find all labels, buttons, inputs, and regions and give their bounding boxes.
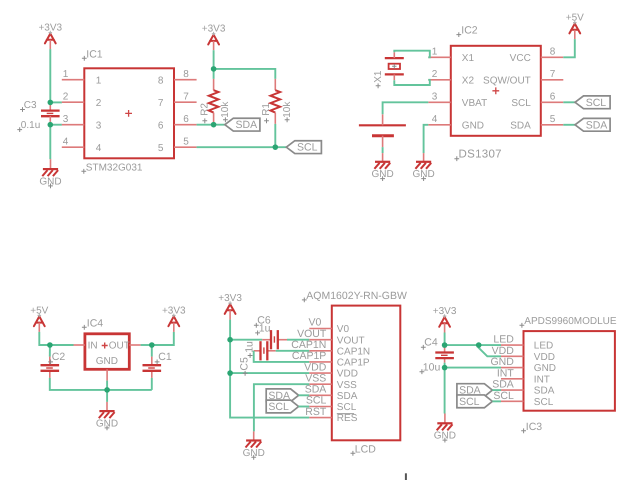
svg-text:1: 1 bbox=[96, 75, 102, 86]
svg-text:STM32G031: STM32G031 bbox=[86, 163, 143, 174]
wire SDA to tag bbox=[563, 124, 575, 126]
svg-text:SDA: SDA bbox=[492, 379, 514, 391]
junction bbox=[476, 342, 482, 348]
svg-text:GND: GND bbox=[534, 363, 556, 374]
svg-text:3: 3 bbox=[96, 120, 102, 131]
supply +3V3 (pull-ups) bbox=[202, 24, 226, 51]
svg-text:C3: C3 bbox=[24, 100, 37, 111]
svg-text:IC4: IC4 bbox=[87, 317, 104, 329]
wire rail segment bbox=[229, 340, 231, 373]
wire VDD bbox=[230, 372, 309, 374]
junction bbox=[442, 342, 448, 348]
wire to IC1 pin 3 bbox=[50, 124, 62, 126]
wire +5V to VCC bbox=[563, 39, 575, 57]
supply +5V (IC2) bbox=[566, 13, 584, 40]
net label SCL (IC1) bbox=[286, 141, 321, 154]
label C2 bbox=[48, 351, 65, 364]
wire +5V to IN net bbox=[39, 332, 50, 345]
label STM32G031 bbox=[81, 163, 143, 174]
svg-text:APDS9960MODLUE: APDS9960MODLUE bbox=[524, 316, 617, 327]
capacitor C3 plates bbox=[41, 111, 60, 117]
net label SDA (IC2) bbox=[575, 118, 610, 131]
wire VSS to ground bbox=[254, 384, 309, 431]
supply +5V (regulator) bbox=[30, 305, 48, 332]
svg-text:SCL: SCL bbox=[511, 98, 531, 109]
supply +3V3 (regulator out) bbox=[162, 305, 186, 332]
junction bbox=[211, 122, 217, 128]
wire to IN pin bbox=[50, 344, 74, 346]
capacitor C4 10u bbox=[444, 345, 446, 363]
svg-text:DS1307: DS1307 bbox=[459, 149, 502, 161]
junction bbox=[48, 122, 54, 128]
capacitor C6 1u bbox=[262, 339, 287, 341]
svg-text:INT: INT bbox=[534, 374, 550, 385]
junction bbox=[273, 144, 279, 150]
label C1 bbox=[155, 351, 172, 364]
wire SDA tag to pin bbox=[492, 389, 501, 391]
wire to VDD pin bbox=[479, 345, 501, 356]
crystal X1 bbox=[373, 52, 404, 88]
svg-text:R2: R2 bbox=[199, 103, 210, 116]
resistor R2 10k bbox=[199, 79, 231, 124]
label C4 bbox=[421, 337, 438, 350]
wire to ground bbox=[444, 368, 446, 414]
wire pin6 SDA net bbox=[197, 124, 225, 126]
wire R1 bottom to SCL bbox=[274, 124, 276, 147]
sensor module IC3 APDS9960MODLUE bbox=[490, 331, 614, 411]
wire rail to ground bbox=[106, 390, 108, 402]
wire IC2 GND pin to ground bbox=[424, 125, 429, 153]
svg-text:6: 6 bbox=[158, 120, 164, 131]
svg-text:X2: X2 bbox=[462, 75, 475, 86]
svg-text:SCL: SCL bbox=[459, 396, 480, 408]
svg-text:SCL: SCL bbox=[337, 402, 357, 413]
wire X1 to pin2 bbox=[394, 80, 430, 85]
wire to R1 top bbox=[214, 69, 276, 79]
net label SDA (IC1) bbox=[225, 118, 260, 131]
svg-text:VDD: VDD bbox=[337, 369, 358, 380]
svg-text:7: 7 bbox=[183, 92, 189, 103]
svg-text:IC3: IC3 bbox=[526, 421, 543, 433]
svg-text:5: 5 bbox=[183, 137, 189, 148]
junction bbox=[149, 342, 155, 348]
label IC3 bbox=[521, 421, 542, 433]
svg-text:SDA: SDA bbox=[586, 119, 608, 131]
svg-text:OUT: OUT bbox=[109, 341, 130, 352]
svg-text:1: 1 bbox=[432, 47, 438, 58]
svg-text:1: 1 bbox=[63, 69, 69, 80]
svg-text:SDA: SDA bbox=[305, 384, 327, 396]
capacitor C3 0.1u bbox=[49, 102, 51, 110]
svg-text:VDD: VDD bbox=[492, 345, 515, 357]
svg-text:10u: 10u bbox=[423, 361, 441, 373]
svg-text:INT: INT bbox=[497, 367, 515, 379]
capacitor C1 bbox=[151, 357, 153, 378]
svg-text:VOUT: VOUT bbox=[337, 335, 365, 346]
svg-text:2: 2 bbox=[63, 92, 69, 103]
ground (C3) bbox=[39, 159, 61, 188]
ground (APDS) bbox=[434, 414, 456, 443]
capacitor C2 plates bbox=[41, 365, 60, 371]
label IC1 bbox=[82, 48, 103, 60]
svg-text:IC1: IC1 bbox=[86, 48, 103, 60]
wire LED net bbox=[445, 344, 479, 346]
svg-text:LED: LED bbox=[493, 334, 514, 346]
wire C4 to GND net bbox=[444, 363, 446, 368]
label 0.1u bbox=[17, 120, 40, 132]
svg-text:SDA: SDA bbox=[236, 119, 258, 131]
wire battery to ground bbox=[382, 147, 384, 153]
wire C3 to pin3 net bbox=[49, 122, 51, 125]
label C5 bbox=[239, 357, 251, 376]
wire OUT to junction bbox=[141, 344, 152, 346]
wire to C6 bbox=[230, 339, 262, 341]
svg-text:AQM1602Y-RN-GBW: AQM1602Y-RN-GBW bbox=[306, 290, 407, 302]
svg-text:R1: R1 bbox=[261, 103, 272, 116]
svg-text:SCL: SCL bbox=[586, 97, 607, 109]
capacitor C6 plates bbox=[271, 330, 278, 349]
ground (battery) bbox=[371, 153, 393, 181]
junction bbox=[211, 66, 217, 72]
regulator IC4 bbox=[74, 334, 141, 381]
svg-text:5: 5 bbox=[550, 114, 556, 125]
wire to IC1 pin 2 bbox=[50, 101, 62, 103]
label LCD bbox=[351, 443, 377, 455]
wire +3V3 down to C4 bbox=[444, 333, 446, 346]
capacitor C1 plates bbox=[143, 365, 162, 371]
svg-text:SCL: SCL bbox=[493, 390, 514, 402]
wire GND pin to rail bbox=[106, 381, 108, 390]
junction bbox=[227, 370, 233, 376]
svg-text:4: 4 bbox=[432, 114, 438, 125]
svg-text:LCD: LCD bbox=[355, 443, 376, 455]
capacitor C4 plates bbox=[435, 353, 454, 359]
svg-text:SQW/OUT: SQW/OUT bbox=[483, 75, 531, 86]
svg-text:VBAT: VBAT bbox=[462, 98, 487, 109]
wire X1 to pin1 bbox=[394, 51, 430, 58]
wire SCL tag to pin bbox=[492, 400, 501, 402]
net label SCL (IC2) bbox=[575, 96, 610, 109]
svg-text:VDD: VDD bbox=[534, 352, 555, 363]
svg-text:CAP1P: CAP1P bbox=[337, 358, 370, 369]
svg-text:SDA: SDA bbox=[534, 386, 555, 397]
junction bbox=[48, 100, 54, 106]
svg-text:6: 6 bbox=[183, 114, 189, 125]
label 1u (C5) bbox=[244, 341, 256, 358]
label AQM1602Y-RN-GBW bbox=[302, 290, 407, 303]
net label SCL (LCD) bbox=[266, 400, 298, 413]
ic IC1 STM32G031 bbox=[62, 68, 197, 158]
supply +3V3 (IC1 rail) bbox=[38, 23, 62, 50]
svg-text:C4: C4 bbox=[424, 337, 438, 349]
C3 bottom lead bbox=[49, 116, 51, 122]
wire SDA tag to pin bbox=[299, 394, 310, 396]
svg-text:C2: C2 bbox=[52, 351, 66, 363]
resistor R1 10k bbox=[261, 79, 293, 124]
wire to C2 bbox=[49, 345, 51, 357]
svg-text:V0: V0 bbox=[337, 324, 350, 335]
svg-text:CAP1P: CAP1P bbox=[292, 350, 326, 362]
label APDS9960MODLUE bbox=[520, 316, 617, 328]
svg-text:SDA: SDA bbox=[510, 120, 531, 131]
cursor mark bbox=[405, 473, 407, 480]
svg-text:3: 3 bbox=[63, 114, 69, 125]
svg-text:SCL: SCL bbox=[534, 397, 554, 408]
wire +3V3 to resistor rail bbox=[213, 50, 215, 69]
junction bbox=[104, 387, 110, 393]
svg-text:RES: RES bbox=[337, 413, 358, 424]
capacitor C2 bbox=[49, 357, 51, 378]
label IC2 bbox=[456, 25, 477, 37]
wire OUT to +3V3 bbox=[152, 332, 174, 345]
svg-text:GND: GND bbox=[462, 120, 484, 131]
ground (IC2) bbox=[412, 153, 434, 181]
wire to C1 bbox=[151, 345, 153, 357]
svg-text:8: 8 bbox=[158, 75, 164, 86]
junction bbox=[47, 342, 53, 348]
svg-text:7: 7 bbox=[158, 98, 164, 109]
wire C1 to rail bbox=[151, 378, 153, 390]
svg-text:4: 4 bbox=[96, 143, 102, 154]
capacitor C5 plates bbox=[261, 341, 268, 360]
wire +3V3 to RST bbox=[230, 373, 309, 418]
wire +3V3 down bbox=[229, 320, 231, 340]
wire SCL to tag bbox=[563, 101, 575, 103]
wire to LED pin bbox=[479, 344, 501, 346]
wire GND net bbox=[445, 367, 501, 369]
svg-text:X1: X1 bbox=[462, 53, 475, 64]
svg-text:V0: V0 bbox=[308, 317, 321, 329]
svg-text:VCC: VCC bbox=[510, 53, 531, 64]
net label SDA (LCD) bbox=[266, 389, 298, 402]
svg-text:SDA: SDA bbox=[337, 391, 358, 402]
supply +3V3 (APDS) bbox=[433, 306, 457, 333]
label C3 bbox=[20, 100, 37, 112]
ic IC2 DS1307 bbox=[428, 46, 563, 136]
wire +3V3 down to C3 bbox=[49, 49, 51, 102]
svg-text:CAP1N: CAP1N bbox=[337, 346, 370, 357]
svg-text:GND: GND bbox=[96, 356, 118, 367]
junction bbox=[442, 365, 448, 371]
svg-text:0.1u: 0.1u bbox=[21, 120, 40, 131]
svg-text:8: 8 bbox=[550, 47, 556, 58]
svg-text:2: 2 bbox=[96, 98, 102, 109]
label C6 bbox=[254, 315, 271, 328]
svg-text:IC2: IC2 bbox=[461, 25, 478, 37]
svg-text:RST: RST bbox=[305, 406, 327, 418]
wire SCL tag to pin bbox=[299, 406, 310, 408]
label IC4 bbox=[82, 317, 103, 329]
wire ground rail bbox=[50, 378, 152, 390]
label 10u bbox=[420, 361, 441, 374]
svg-text:5: 5 bbox=[158, 143, 164, 154]
svg-text:6: 6 bbox=[550, 92, 556, 103]
lcd module LCD AQM1602Y-RN-GBW bbox=[291, 306, 400, 441]
svg-text:2: 2 bbox=[432, 69, 438, 80]
ground (IC4) bbox=[96, 402, 118, 430]
svg-text:SCL: SCL bbox=[297, 142, 318, 154]
wire battery to VBAT bbox=[383, 102, 429, 114]
wire down to ground bbox=[49, 125, 51, 159]
svg-text:8: 8 bbox=[183, 69, 189, 80]
svg-text:4: 4 bbox=[63, 137, 69, 148]
battery B1 bbox=[359, 114, 406, 147]
wire C6 to VOUT pin bbox=[287, 339, 309, 341]
wire C5 to CAP1P bbox=[254, 351, 310, 362]
svg-text:GND: GND bbox=[490, 356, 514, 368]
svg-text:3: 3 bbox=[432, 92, 438, 103]
svg-text:C5: C5 bbox=[239, 357, 251, 371]
svg-text:10k: 10k bbox=[282, 101, 293, 118]
label 1u (C6) bbox=[255, 323, 270, 336]
svg-text:LED: LED bbox=[534, 341, 553, 352]
svg-text:X1: X1 bbox=[373, 70, 384, 83]
wire C5 to CAP1N bbox=[276, 350, 310, 352]
svg-text:10k: 10k bbox=[220, 101, 231, 118]
junction bbox=[227, 337, 233, 343]
net label SCL (APDS) bbox=[457, 395, 493, 408]
net label SDA (APDS) bbox=[457, 384, 493, 397]
ground (LCD) bbox=[243, 431, 265, 459]
svg-text:IN: IN bbox=[88, 341, 98, 352]
svg-text:1u: 1u bbox=[259, 323, 271, 335]
svg-text:VSS: VSS bbox=[337, 380, 357, 391]
capacitor C5 1u bbox=[254, 350, 276, 352]
supply +3V3 (LCD) bbox=[218, 293, 242, 320]
wire to R2 top bbox=[213, 69, 215, 79]
wire pin5 SCL net bbox=[197, 146, 287, 148]
svg-text:C1: C1 bbox=[158, 351, 172, 363]
svg-text:7: 7 bbox=[550, 69, 556, 80]
label DS1307 bbox=[454, 149, 501, 161]
svg-text:SCL: SCL bbox=[268, 401, 289, 413]
